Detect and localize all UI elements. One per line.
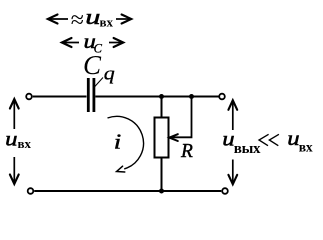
node junction dot (bottom of R) xyxy=(159,189,164,194)
leader line from q to capacitor plate xyxy=(94,78,103,88)
dimension arrow up (u_вх left) xyxy=(10,99,19,129)
svg-text:q: q xyxy=(104,64,116,85)
svg-text:вх: вх xyxy=(299,140,313,155)
wire, tap from top node down and left xyxy=(171,97,192,138)
label u_вх (right) xyxy=(287,126,313,155)
svg-text:вх: вх xyxy=(100,15,114,30)
dimension arrow left, top line (≈ u_вх) xyxy=(48,15,68,24)
current arrowhead xyxy=(117,166,125,172)
svg-text:вых: вых xyxy=(234,141,261,157)
wire, bottom xyxy=(34,190,221,192)
tap arrowhead pointing at resistor xyxy=(169,134,178,141)
dimension arrow right, top line (≈ u_вх) xyxy=(116,15,131,24)
wire, top node to resistor xyxy=(161,97,163,118)
resistor R body xyxy=(155,118,169,158)
much-less-than sign << xyxy=(259,134,279,145)
terminal, output bottom xyxy=(222,188,228,194)
dimension arrow up (u_вых right) xyxy=(228,100,237,130)
wire, top left (terminal to capacitor) xyxy=(33,96,87,98)
current loop arc i xyxy=(108,116,144,169)
label ≈ u_вх (top dimension) xyxy=(71,4,114,34)
capacitor C right plate xyxy=(93,78,96,112)
label u_вх (input voltage) xyxy=(5,128,31,151)
svg-text:u: u xyxy=(85,4,100,29)
wire, resistor to bottom node xyxy=(161,158,163,191)
label u_вых xyxy=(222,126,261,157)
label u_C xyxy=(84,31,103,56)
dimension arrow right, second line (u_C) xyxy=(109,38,123,47)
node junction dot (top of R) xyxy=(159,94,164,99)
dimension arrow down (u_вх left) xyxy=(10,157,19,184)
svg-text:u: u xyxy=(5,128,17,150)
wire, top middle (capacitor to right terminal) xyxy=(95,96,218,98)
node junction dot (top of tap) xyxy=(189,94,194,99)
svg-text:C: C xyxy=(83,50,102,80)
capacitor C left plate xyxy=(87,78,90,112)
terminal, input bottom xyxy=(28,188,34,194)
dimension arrow left, second line (u_C) xyxy=(62,38,79,47)
svg-text:R: R xyxy=(180,141,193,162)
terminal, input top xyxy=(26,94,32,100)
svg-text:вх: вх xyxy=(18,136,32,151)
dimension arrow down (u_вых right) xyxy=(228,160,237,185)
svg-text:i: i xyxy=(114,130,122,154)
svg-text:≈: ≈ xyxy=(71,8,84,34)
terminal, output top xyxy=(219,94,225,100)
